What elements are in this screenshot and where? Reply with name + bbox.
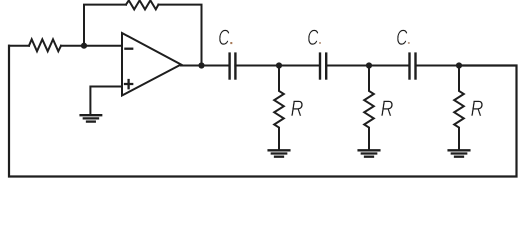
ground (R2) bbox=[359, 150, 380, 156]
wire input left segment bbox=[9, 45, 29, 47]
svg-text:R: R bbox=[381, 97, 394, 121]
label R2 bbox=[381, 97, 394, 121]
wire non-inverting input to ground bbox=[90, 87, 122, 115]
label C3 bbox=[396, 26, 407, 50]
node 1 junction bbox=[276, 62, 282, 68]
resistor R3 shunt bbox=[454, 66, 464, 150]
label R3 bbox=[471, 97, 484, 121]
wire C3 to node3 bbox=[416, 65, 460, 67]
label C1 bbox=[218, 26, 229, 50]
node 3 junction bbox=[456, 62, 462, 68]
svg-text:R: R bbox=[291, 97, 304, 121]
ground (R3) bbox=[449, 150, 470, 156]
resistor Rf (feedback) bbox=[126, 0, 158, 9]
node output junction bbox=[198, 62, 204, 68]
wire op-amp output bbox=[181, 65, 228, 67]
ground (op-amp non-inverting input) bbox=[81, 115, 102, 121]
wire C2 to node2 bbox=[326, 65, 409, 67]
svg-text:C: C bbox=[218, 26, 229, 50]
label C3 subscript dot bbox=[408, 42, 410, 44]
wire outer feedback loop (left rail, bottom rail, right rail) bbox=[9, 46, 517, 177]
wire input to inverting input bbox=[61, 45, 122, 47]
label C2 bbox=[307, 26, 318, 50]
label R1 bbox=[291, 97, 304, 121]
capacitor C3 bbox=[410, 54, 416, 79]
op-amp minus sign bbox=[125, 48, 132, 50]
svg-text:C: C bbox=[307, 26, 318, 50]
ground (R1) bbox=[269, 150, 290, 156]
wire feedback right vertical bbox=[158, 5, 201, 66]
wire C1 to node1 bbox=[235, 65, 320, 67]
node 2 junction bbox=[366, 62, 372, 68]
op-amp U1 bbox=[122, 33, 181, 96]
svg-text:C: C bbox=[396, 26, 407, 50]
capacitor C1 bbox=[230, 54, 236, 79]
resistor R1 shunt bbox=[274, 66, 284, 150]
op-amp plus sign bbox=[125, 80, 132, 88]
capacitor C2 bbox=[320, 54, 326, 79]
svg-text:R: R bbox=[471, 97, 484, 121]
resistor R (series input) bbox=[29, 39, 61, 51]
label C1 subscript dot bbox=[230, 42, 232, 44]
node inverting-input junction bbox=[81, 43, 87, 49]
label C2 subscript dot bbox=[319, 42, 321, 44]
resistor R2 shunt bbox=[364, 66, 374, 150]
wire feedback left vertical bbox=[84, 5, 126, 46]
